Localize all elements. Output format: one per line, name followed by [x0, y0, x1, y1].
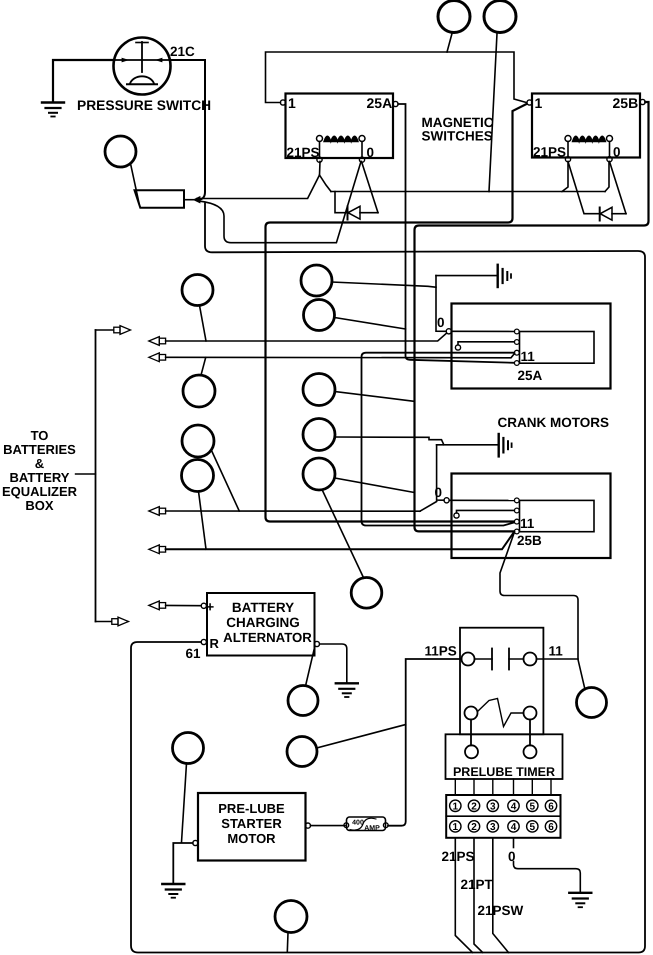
svg-text:STARTER: STARTER: [221, 816, 282, 831]
svg-text:1: 1: [453, 822, 459, 833]
svg-text:1: 1: [535, 95, 543, 111]
svg-text:21PSW: 21PSW: [478, 903, 524, 918]
svg-text:0: 0: [613, 145, 621, 160]
svg-text:21PS: 21PS: [442, 849, 475, 864]
svg-text:21PT: 21PT: [461, 877, 494, 892]
svg-text:3: 3: [490, 822, 496, 833]
svg-text:21PS: 21PS: [533, 145, 566, 160]
svg-text:11PS: 11PS: [425, 644, 457, 659]
svg-text:25A: 25A: [518, 368, 543, 383]
svg-text:PRESSURE SWITCH: PRESSURE SWITCH: [77, 98, 211, 113]
svg-text:0: 0: [508, 849, 516, 864]
svg-text:3: 3: [490, 801, 496, 812]
svg-text:+: +: [206, 599, 214, 615]
svg-text:SWITCHES: SWITCHES: [422, 129, 493, 144]
svg-text:BATTERY: BATTERY: [10, 470, 70, 485]
svg-text:1: 1: [453, 801, 459, 812]
svg-text:BATTERIES: BATTERIES: [3, 442, 76, 457]
svg-text:6: 6: [548, 801, 554, 812]
svg-text:25B: 25B: [613, 95, 639, 111]
svg-text:MOTOR: MOTOR: [227, 831, 276, 846]
svg-text:1: 1: [288, 95, 296, 111]
svg-text:21C: 21C: [170, 44, 195, 59]
svg-text:4: 4: [511, 822, 517, 833]
svg-text:0: 0: [437, 315, 445, 330]
svg-text:ALTERNATOR: ALTERNATOR: [223, 630, 312, 645]
svg-text:5: 5: [530, 801, 536, 812]
svg-text:5: 5: [530, 822, 536, 833]
svg-text:CRANK MOTORS: CRANK MOTORS: [498, 415, 610, 430]
svg-text:EQUALIZER: EQUALIZER: [2, 484, 78, 499]
svg-text:25A: 25A: [367, 95, 393, 111]
svg-text:0: 0: [367, 145, 375, 160]
svg-text:0: 0: [435, 485, 443, 500]
svg-text:BATTERY: BATTERY: [232, 600, 294, 615]
svg-text:400: 400: [352, 820, 364, 827]
svg-text:R: R: [210, 636, 220, 651]
svg-text:11: 11: [549, 644, 564, 659]
svg-text:CHARGING: CHARGING: [226, 615, 300, 630]
svg-text:PRELUBE TIMER: PRELUBE TIMER: [453, 765, 555, 779]
svg-text:11: 11: [521, 349, 536, 364]
svg-text:PRE-LUBE: PRE-LUBE: [218, 801, 285, 816]
svg-text:TO: TO: [31, 428, 49, 443]
svg-text:6: 6: [548, 822, 554, 833]
svg-text:25B: 25B: [517, 533, 542, 548]
svg-text:11: 11: [520, 516, 535, 531]
svg-text:2: 2: [471, 801, 477, 812]
svg-text:AMP: AMP: [364, 825, 380, 832]
svg-text:61: 61: [186, 646, 202, 661]
svg-text:BOX: BOX: [25, 498, 54, 513]
svg-text:21PS: 21PS: [287, 145, 320, 160]
svg-text:2: 2: [471, 822, 477, 833]
svg-text:4: 4: [511, 801, 517, 812]
svg-text:&: &: [35, 456, 44, 471]
